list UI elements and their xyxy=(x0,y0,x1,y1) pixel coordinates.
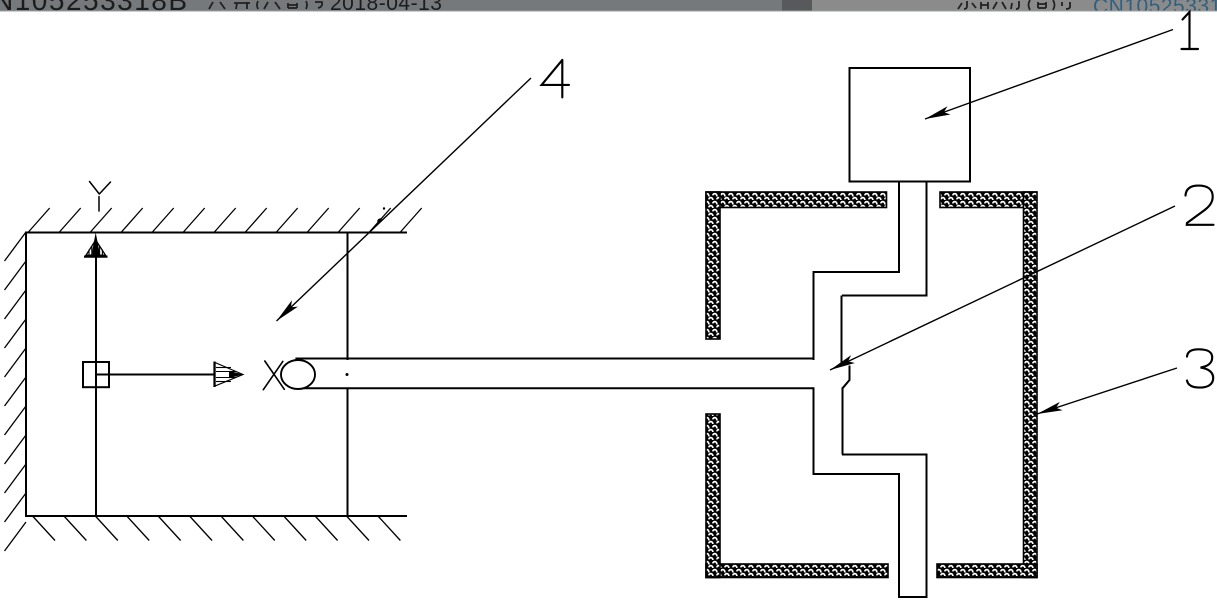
label 2 xyxy=(1186,186,1214,225)
hatching above top wall xyxy=(28,208,422,233)
box 1 (component 1) xyxy=(850,68,971,182)
Y label xyxy=(90,182,111,212)
wall bottom-right bar xyxy=(937,564,1037,578)
piston bottom edge xyxy=(813,473,900,475)
label 4 xyxy=(542,60,569,98)
wall top line xyxy=(25,232,407,234)
CJK text bottom fragments (drawn) xyxy=(209,0,1070,10)
small dot on rod xyxy=(346,373,349,376)
piston left edge lower xyxy=(813,387,815,475)
X axis arrowhead (open triangle, horizontal hatch) xyxy=(215,362,244,388)
lower step edge xyxy=(842,454,927,456)
rod joint circle xyxy=(281,360,315,389)
wall right vertical bar xyxy=(1024,192,1038,578)
piston left edge upper xyxy=(813,272,815,360)
leader line 1 xyxy=(925,30,1173,120)
piston top edge xyxy=(813,271,900,273)
upper channel to box 1 xyxy=(899,182,927,297)
leader line 2 xyxy=(830,206,1175,370)
wall lower-left vertical bar xyxy=(706,414,720,578)
upper step edge xyxy=(842,295,927,297)
header bar (cut-off viewer chrome) xyxy=(0,0,1217,12)
block right edge xyxy=(347,233,349,517)
X axis line xyxy=(96,374,215,376)
wall bottom line xyxy=(25,515,407,517)
Y axis line xyxy=(95,249,97,516)
piston right edge lower xyxy=(842,387,844,454)
leader line 3 xyxy=(1037,368,1177,414)
wall left line xyxy=(25,232,27,518)
piston right edge upper xyxy=(841,296,843,364)
origin square xyxy=(83,362,109,387)
Y axis arrowhead (solid dart + hatched open triangle) xyxy=(84,233,108,257)
label 1 xyxy=(1182,12,1199,49)
header text (bottom-cropped) xyxy=(0,0,1217,18)
leader 4 artifacts xyxy=(376,217,382,223)
leader line 4 xyxy=(277,78,532,321)
wall bottom-left bar xyxy=(706,564,888,578)
hatching below bottom wall xyxy=(33,517,400,541)
lower channel xyxy=(898,454,928,598)
wall top-right bar xyxy=(940,192,1037,208)
X label xyxy=(263,361,284,390)
wall upper-left vertical bar xyxy=(706,192,720,339)
wall top-left bar xyxy=(706,192,887,208)
connecting rod (white fill hides box edge) xyxy=(296,360,814,388)
hatching left of wall xyxy=(5,232,27,551)
notch segment xyxy=(843,366,850,389)
label 3 xyxy=(1187,349,1213,387)
